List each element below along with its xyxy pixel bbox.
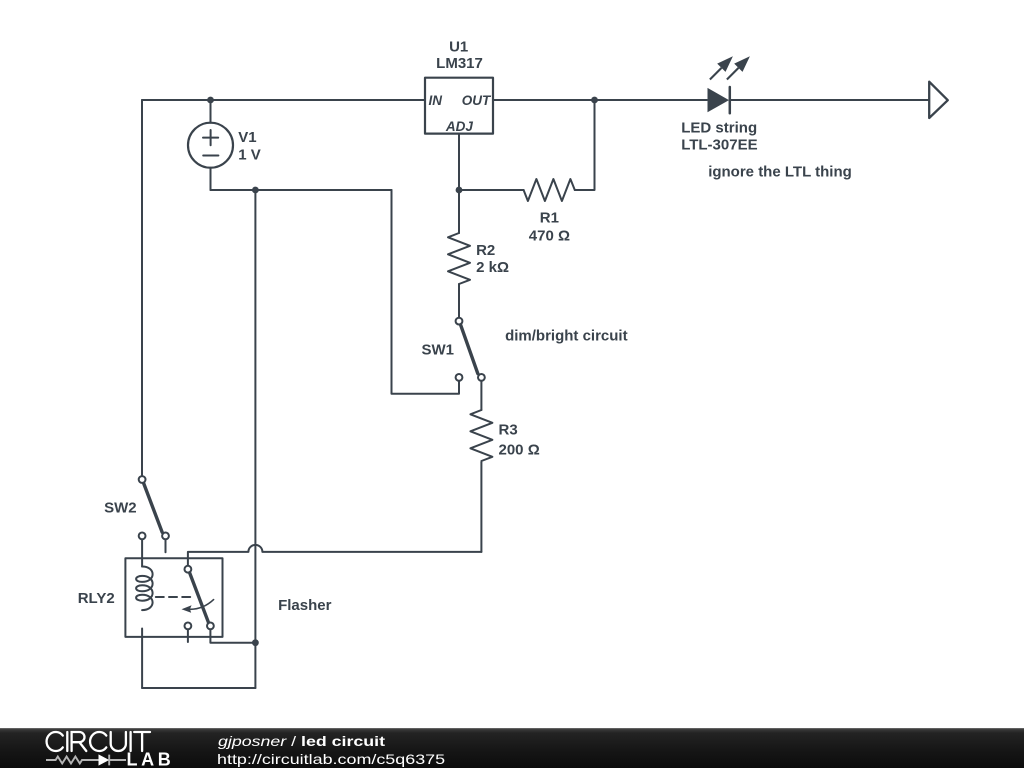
junction node ADJ/R1/R2 (456, 187, 463, 194)
logo letter I (129, 732, 131, 751)
svg-text:1 V: 1 V (238, 146, 261, 163)
svg-text:2 kΩ: 2 kΩ (476, 259, 509, 276)
footer title line (218, 733, 385, 749)
wire V1 leads (210, 100, 212, 190)
relay NO terminal (207, 623, 214, 630)
svg-text:R3: R3 (499, 422, 518, 439)
CircuitLab logo (0, 728, 200, 768)
svg-text:SW1: SW1 (421, 341, 454, 358)
svg-text:R1: R1 (540, 210, 559, 227)
logo letter C (90, 732, 106, 751)
logo letter U (111, 732, 126, 751)
logo diode triangle (99, 754, 110, 765)
svg-text:ADJ: ADJ (445, 119, 473, 134)
LED anode triangle (708, 88, 730, 112)
svg-text:200 Ω: 200 Ω (499, 441, 540, 458)
SW2 throw-left terminal (139, 533, 146, 540)
wire top main rail (142, 99, 929, 101)
svg-text:LM317: LM317 (436, 55, 483, 72)
svg-text:dim/bright circuit: dim/bright circuit (505, 328, 628, 345)
logo letter R (72, 732, 87, 751)
wire relay common to center node (210, 629, 255, 642)
svg-text:LAB: LAB (127, 750, 175, 768)
LED emission arrow 1 (710, 56, 733, 79)
wire SW2 pole lead (141, 539, 143, 566)
relay actuation dashed link (156, 596, 194, 598)
wire relay NC stub (187, 629, 189, 642)
relay NC terminal (185, 623, 192, 630)
logo letter C (47, 732, 63, 751)
junction node OUT/R1 (591, 97, 598, 104)
port output arrow (929, 82, 948, 118)
V1 plus sign (203, 130, 218, 145)
wire bottom return (142, 687, 255, 689)
wire SW1 throw-left to V- rail (392, 190, 460, 394)
wire U1 ADJ lead (458, 134, 460, 190)
SW2 pole terminal (139, 476, 146, 483)
svg-text:470 Ω: 470 Ω (529, 228, 570, 245)
relay armature lever (190, 573, 209, 623)
junction node V1 minus (252, 187, 259, 194)
svg-text:ignore the LTL thing: ignore the LTL thing (708, 164, 852, 181)
svg-text:OUT: OUT (462, 93, 492, 108)
junction node relay common (252, 639, 259, 646)
logo letter I (66, 732, 68, 751)
wire R3 bottom lead (480, 462, 482, 552)
wire center vertical x=255 (254, 190, 256, 688)
op-amp U1 box (LM317) (425, 78, 493, 134)
svg-text:LTL-307EE: LTL-307EE (681, 136, 757, 153)
svg-text:U1: U1 (449, 38, 468, 55)
LED emission arrow 2 (727, 56, 750, 79)
switch SW1 lever (461, 325, 478, 374)
wire SW2 unused throw stub (165, 539, 167, 552)
footer bar (0, 728, 1024, 768)
voltage source V1 circle (188, 123, 233, 168)
relay RLY2 box (125, 558, 222, 637)
svg-text:IN: IN (429, 93, 443, 108)
wire flasher rail with hop over x=255 (188, 545, 482, 566)
LED cathode bar (729, 87, 732, 113)
logo diode bar + tail (109, 755, 126, 766)
svg-text:SW2: SW2 (104, 500, 137, 517)
wire V1 minus rail (211, 189, 392, 191)
wire coil bottom lead (141, 629, 143, 689)
switch SW2 lever (144, 483, 163, 532)
relay arrow head (182, 605, 192, 613)
svg-text:V1: V1 (238, 129, 256, 146)
footer url line (217, 751, 445, 767)
V1 minus sign (203, 155, 218, 157)
inductor RLY2 coil (136, 567, 153, 611)
svg-text:LED string: LED string (681, 120, 757, 137)
logo resistor (46, 757, 99, 764)
svg-text:RLY2: RLY2 (78, 590, 115, 607)
svg-text:R2: R2 (476, 242, 495, 259)
SW1 throw-left terminal (456, 374, 463, 381)
resistor R3 (470, 410, 492, 461)
resistor R2 (448, 233, 470, 284)
junction node V1 top (207, 97, 214, 104)
relay curved arrow (187, 600, 214, 610)
svg-text:Flasher: Flasher (278, 597, 332, 614)
SW1 throw-right terminal (478, 374, 485, 381)
logo letter T (134, 732, 150, 751)
wire R1 leads (459, 100, 595, 190)
wire left drop to SW2 (141, 100, 143, 476)
relay armature pole terminal (185, 566, 192, 573)
resistor R1 (524, 179, 575, 201)
SW1 pole terminal (456, 318, 463, 325)
SW2 throw-right terminal (162, 533, 169, 540)
wire R2 leads (458, 190, 460, 318)
wire SW1 throw-right to R3 (480, 381, 482, 410)
